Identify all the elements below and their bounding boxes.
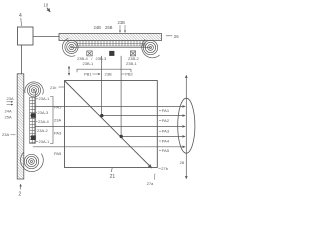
black marker on left head row (upper) — [31, 113, 36, 118]
svg-text:24B: 24B — [94, 25, 102, 30]
left rail bar 2 (hatched) — [17, 74, 24, 179]
top belt — [62, 38, 159, 58]
svg-text:23B-3: 23B-3 — [96, 56, 107, 61]
svg-text:23A: 23A — [2, 132, 9, 137]
figure number 10 — [44, 2, 51, 12]
node dot on PB1 — [100, 114, 103, 117]
labels 24B 25B 23B above rail — [94, 20, 126, 33]
svg-text:23A-3: 23A-3 — [38, 110, 49, 115]
horizontal line PA3 — [35, 125, 186, 127]
svg-text:23B: 23B — [118, 20, 126, 25]
svg-text:PA3: PA3 — [162, 129, 170, 134]
left pulley 24B of top unit — [65, 40, 78, 53]
top rail bar 26 (hatched) — [59, 34, 162, 41]
label 4 — [19, 13, 22, 26]
vertical feed line — [185, 75, 187, 179]
label 26 — [166, 34, 179, 39]
svg-text:PA4: PA4 — [162, 138, 170, 143]
svg-text:23B: 23B — [105, 72, 112, 77]
svg-text:23A-1: 23A-1 — [39, 139, 50, 144]
node dot on PB2 — [120, 135, 123, 138]
x marker box on top head row — [87, 51, 92, 56]
wire controller to top rail — [33, 36, 59, 38]
label 21 — [110, 168, 116, 180]
svg-text:PA1: PA1 — [162, 108, 170, 113]
svg-text:4: 4 — [19, 13, 22, 19]
svg-text:21: 21 — [110, 174, 116, 180]
svg-text:PB2: PB2 — [125, 72, 133, 77]
svg-text:24A: 24A — [5, 109, 12, 114]
bottom pulley 25A of left unit — [24, 154, 38, 168]
top pulley 24A of left unit — [27, 84, 40, 97]
left labels 24A 25A cluster — [2, 96, 16, 137]
label 2 — [19, 184, 22, 198]
svg-text:PA1: PA1 — [54, 104, 62, 109]
controller box 4 — [18, 27, 34, 45]
svg-text:26: 26 — [174, 34, 179, 39]
svg-text:23B-1: 23B-1 — [126, 61, 137, 66]
svg-text:27a: 27a — [147, 181, 154, 186]
svg-text:PA5: PA5 — [162, 148, 170, 153]
label 21b leader at left edge — [50, 86, 64, 90]
right pulley 25B of top unit — [143, 40, 157, 54]
x marker box 2 on top head row — [130, 51, 135, 56]
svg-text:PA2: PA2 — [162, 118, 170, 123]
svg-text:23A: 23A — [54, 118, 61, 123]
label 27a — [147, 174, 155, 187]
bracket line left of square — [50, 97, 53, 144]
svg-text:2: 2 — [19, 192, 22, 198]
black marker on left head row (lower) — [31, 135, 36, 140]
svg-text:23A-1: 23A-1 — [39, 96, 50, 101]
print region square 21 — [65, 81, 158, 168]
svg-text:23A-4: 23A-4 — [38, 119, 49, 124]
black marker box on top head row — [109, 51, 114, 56]
svg-text:27b: 27b — [161, 166, 168, 171]
diagonal path 27 — [65, 81, 152, 168]
svg-text:23B-1: 23B-1 — [83, 61, 94, 66]
svg-text:PA5: PA5 — [54, 151, 62, 156]
svg-text:PA3: PA3 — [54, 131, 62, 136]
top head cells 23B row — [77, 41, 145, 46]
svg-text:21b: 21b — [50, 86, 56, 90]
ellipse lens 28 — [178, 98, 195, 153]
horizontal line PA4 — [121, 135, 185, 137]
svg-text:25A: 25A — [5, 115, 12, 120]
svg-text:23A: 23A — [7, 96, 14, 101]
left head cells 23A column — [30, 98, 35, 144]
labels PA1 23A PA3 PA5 left of square — [54, 104, 62, 156]
horizontal line PA2 — [102, 115, 185, 117]
double arrow — [68, 66, 70, 75]
left belt — [21, 82, 44, 172]
svg-text:10: 10 — [44, 2, 49, 7]
label 27b — [158, 166, 168, 171]
vertical line PB1 — [101, 56, 103, 116]
vertical line PB2 — [120, 56, 122, 136]
svg-text:25B: 25B — [105, 25, 113, 30]
horizontal line PA1 — [35, 105, 186, 107]
left head labels — [36, 96, 50, 144]
wire controller to left rail — [21, 45, 23, 74]
svg-text:28: 28 — [180, 160, 185, 165]
horizontal line PA5 — [33, 146, 185, 148]
labels PB1 23B PB2 — [84, 72, 134, 77]
svg-text:23A-2: 23A-2 — [37, 128, 48, 133]
bracket line over PB labels — [77, 69, 131, 72]
label row 23B-4 / 23B-3 / 23B-2 — [77, 56, 139, 66]
labels PA1..PA5 right of square — [159, 108, 170, 153]
svg-text:PB1: PB1 — [84, 72, 92, 77]
